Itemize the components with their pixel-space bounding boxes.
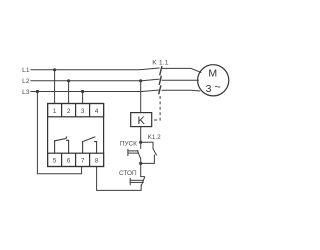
svg-text:5: 5 [53,158,57,165]
svg-text:1: 1 [53,108,57,115]
svg-text:K: K [138,115,146,127]
svg-text:L2: L2 [22,78,30,85]
svg-text:7: 7 [81,158,85,165]
svg-text:L1: L1 [22,67,30,74]
svg-text:K 1.1: K 1.1 [152,60,168,67]
svg-text:3: 3 [81,108,85,115]
svg-text:K1.2: K1.2 [148,134,162,141]
svg-text:6: 6 [67,158,71,165]
svg-text:2: 2 [67,108,71,115]
svg-text:СТОП: СТОП [119,170,137,177]
svg-text:M: M [208,67,217,79]
svg-text:4: 4 [95,108,99,115]
svg-text:ПУСК: ПУСК [120,140,137,147]
svg-text:3: 3 [206,83,212,95]
svg-text:L3: L3 [22,89,30,96]
svg-text:~: ~ [214,81,220,93]
svg-text:8: 8 [95,158,99,165]
